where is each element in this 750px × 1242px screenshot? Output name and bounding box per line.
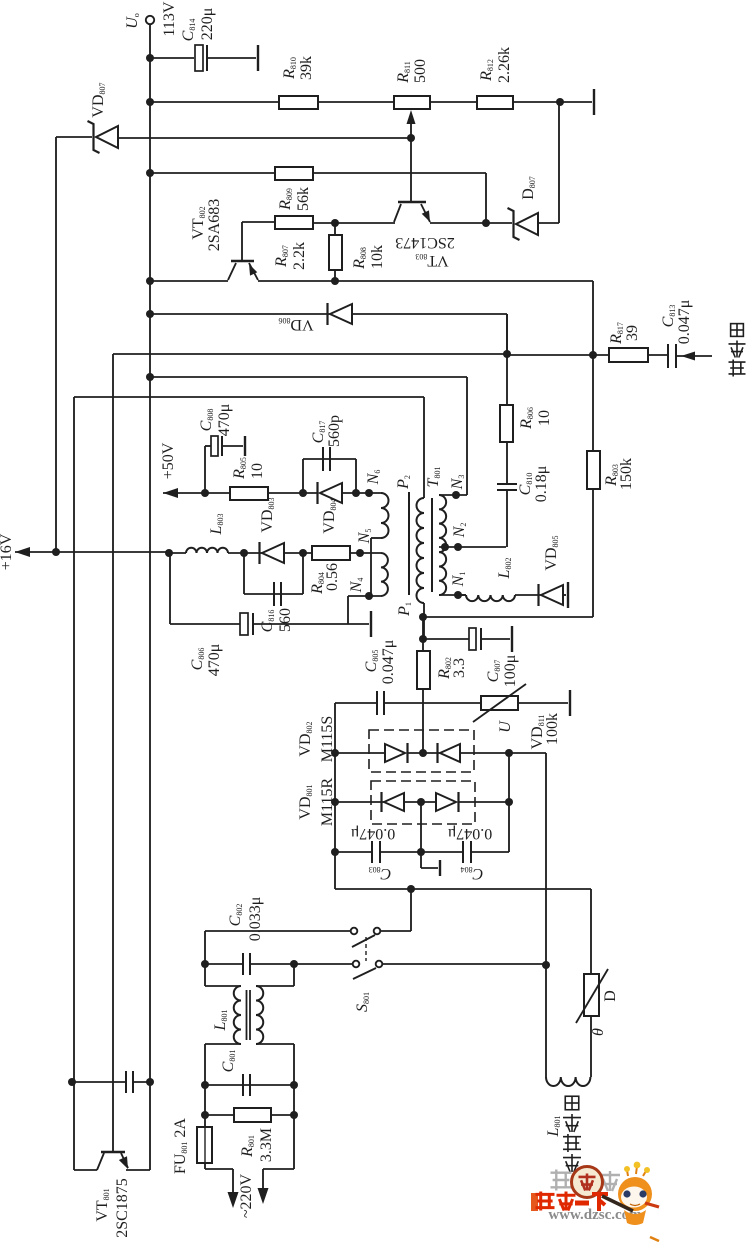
junction dot	[146, 277, 154, 285]
capacitor C803	[372, 841, 380, 863]
svg-text:470μ: 470μ	[216, 404, 233, 437]
wire	[222, 445, 243, 447]
wire R809 down to emitter row	[485, 173, 487, 223]
varistor VD811 (U)	[481, 696, 518, 710]
junction dot	[419, 749, 427, 757]
transformer T801 secondary winding right (N3-N2-N1)	[439, 495, 446, 595]
svg-text:2.26k: 2.26k	[496, 47, 513, 83]
ground bar	[257, 45, 259, 71]
wire R803 branch	[592, 355, 594, 451]
svg-text:0.18μ: 0.18μ	[533, 466, 550, 503]
junction dot	[201, 489, 209, 497]
wire	[518, 702, 568, 704]
wire	[459, 801, 509, 803]
svg-text:0.047μ: 0.047μ	[351, 826, 396, 843]
svg-text:2SC1875: 2SC1875	[114, 1178, 131, 1238]
wire	[506, 442, 508, 484]
junction dot	[503, 350, 511, 358]
junction dot	[417, 848, 425, 856]
wire	[334, 270, 336, 281]
wire VD806 row	[150, 313, 330, 315]
wire bridge right column	[508, 753, 510, 852]
label xiao-ci-xian-quan (degaussing coil)	[563, 1154, 581, 1172]
wire corner up to top rail	[558, 102, 560, 223]
wire	[352, 313, 507, 315]
zener diode VD807	[96, 126, 118, 148]
wire C817 right riser	[355, 459, 357, 493]
mains lead arrow 2	[262, 1169, 264, 1192]
wire	[513, 101, 560, 103]
wire primary top lead P2	[423, 397, 425, 498]
junction dot	[441, 543, 449, 551]
svg-text:2SC1473: 2SC1473	[395, 235, 455, 252]
transistor VT802 2SA683	[231, 260, 254, 263]
wire right column corner	[263, 1168, 294, 1170]
wire switch pole1 left	[205, 930, 350, 932]
transformer core bar right	[431, 498, 433, 592]
junction dot	[505, 749, 513, 757]
svg-text:39k: 39k	[298, 56, 315, 80]
svg-text:10: 10	[249, 463, 266, 479]
wire	[648, 354, 668, 356]
junction dot	[556, 98, 564, 106]
resistor R810	[279, 96, 318, 109]
wire bridge AC right drop	[545, 753, 547, 965]
svg-text:470μ: 470μ	[206, 644, 223, 677]
wire	[228, 552, 262, 554]
junction dot	[146, 54, 154, 62]
junction dot	[299, 489, 307, 497]
inductor L803	[186, 548, 228, 553]
wire switch riser	[410, 889, 412, 931]
wire C814 feed	[150, 57, 194, 59]
wire N3 feedback row	[150, 376, 467, 378]
junction dot	[542, 961, 550, 969]
wire	[458, 594, 466, 596]
capacitor C810	[497, 484, 517, 490]
wire C816 right riser	[302, 553, 304, 594]
wire horizontal drive row (to VT801 base)	[113, 353, 507, 355]
svg-text:2.2k: 2.2k	[291, 242, 308, 270]
svg-text:U: U	[497, 720, 514, 733]
dashed box damper VD801	[371, 781, 475, 824]
fuse FU801	[197, 1127, 212, 1163]
wire C803 row	[335, 851, 372, 853]
junction dot	[589, 351, 597, 359]
junction dot N2	[454, 543, 462, 551]
switch S801 pole2	[353, 961, 360, 968]
wire C810 to N2 corner	[506, 490, 508, 547]
junction dot N4	[365, 592, 373, 600]
wire VD807 row	[56, 136, 92, 138]
wire	[169, 552, 186, 554]
transistor VT801 2SC1875	[74, 1169, 97, 1171]
capacitor C804	[463, 841, 471, 863]
svg-text:560: 560	[277, 608, 294, 632]
wire P1 row	[423, 616, 593, 618]
capacitor C816	[274, 582, 281, 606]
wire P1 down	[422, 617, 424, 639]
wire	[284, 552, 312, 554]
arrowhead drive input	[681, 352, 695, 361]
wire N3 stub	[439, 494, 467, 496]
svg-text:0.047μ: 0.047μ	[676, 300, 693, 345]
wire C806 branch riser	[169, 553, 171, 624]
transformer T801 left winding upper (N6-N4)	[381, 493, 389, 538]
wire winding bypass vertical	[370, 538, 372, 596]
junction dot	[52, 548, 60, 556]
capacitor C813	[668, 344, 676, 368]
mains lead arrow 1	[232, 1169, 234, 1196]
wire C801 row	[205, 1084, 294, 1086]
transformer T801 left winding lower (N5-N4)	[381, 553, 388, 596]
junction dot	[331, 277, 339, 285]
ground bar	[567, 582, 569, 608]
wire N2 tap	[439, 546, 506, 548]
resistor R807	[275, 216, 313, 229]
wire degauss PTC drop	[590, 889, 592, 974]
watermark zhao-xin-pian outlined text	[551, 1170, 572, 1191]
junction dot	[417, 798, 425, 806]
choke core bars	[246, 990, 248, 1040]
junction dot	[299, 549, 307, 557]
wire C805/varistor row	[335, 702, 377, 704]
junction dot	[240, 549, 248, 557]
wire choke left bottom stub	[205, 1043, 241, 1045]
diode VD801-b	[436, 793, 456, 811]
resistor R804	[312, 546, 350, 560]
junction dot N5	[356, 549, 364, 557]
capacitor VT801 C-E damper cap	[72, 1081, 126, 1083]
diode VD805	[541, 585, 563, 605]
wire corner down to R817 row	[592, 281, 594, 355]
junction dot	[146, 1078, 154, 1086]
wire N4 ground jog	[347, 596, 349, 624]
wire to N5	[350, 552, 381, 554]
capacitor C808 electrolytic	[211, 436, 218, 456]
terminal U0 output	[146, 16, 154, 24]
inductor L802	[466, 595, 515, 601]
wire	[563, 594, 566, 596]
wire	[384, 702, 481, 704]
transistor VT803 2SC1473	[410, 139, 412, 201]
wire right column lower	[293, 1044, 295, 1169]
junction dot	[146, 98, 154, 106]
wire	[507, 354, 609, 356]
wire to VT803	[335, 222, 395, 224]
wire primary bottom lead P1	[423, 603, 425, 639]
resistor R805	[230, 487, 268, 500]
capacitor C806 electrolytic	[240, 613, 248, 635]
junction dot	[331, 219, 339, 227]
wire	[313, 172, 486, 174]
wire bridge center column	[420, 802, 422, 852]
capacitor C817	[323, 447, 330, 471]
wire to N6	[342, 492, 381, 494]
svg-text:3.3M: 3.3M	[258, 1128, 275, 1162]
wire mains row upper (bridge AC)	[335, 888, 591, 890]
wire D807 to corner	[538, 222, 559, 224]
thermistor D (PTC)	[584, 974, 599, 1016]
diode VD803	[262, 543, 284, 563]
wire left tall line from VD807	[55, 137, 57, 552]
junction dot	[352, 489, 360, 497]
junction dot	[146, 373, 154, 381]
wire PTC to coil	[590, 1016, 592, 1077]
junction dot	[331, 749, 339, 757]
wire R802 link	[422, 639, 424, 651]
resistor R802	[417, 651, 430, 689]
junction dot	[290, 960, 298, 968]
wire choke right riser	[293, 964, 295, 986]
capacitor C817 loop left riser	[302, 459, 304, 493]
ground bar	[593, 89, 595, 115]
svg-text:56k: 56k	[295, 187, 312, 211]
svg-text:10k: 10k	[369, 245, 386, 269]
junction dot	[146, 169, 154, 177]
resistor R817	[609, 348, 648, 362]
junction dot	[201, 1111, 209, 1119]
svg-text:39: 39	[624, 325, 641, 341]
resistor R801	[234, 1108, 271, 1122]
svg-text:0.033μ: 0.033μ	[247, 897, 264, 942]
wire	[481, 638, 510, 640]
wire +16V row	[15, 551, 169, 553]
junction dot	[331, 848, 339, 856]
wire R801 row	[205, 1114, 234, 1116]
svg-text:150k: 150k	[618, 458, 635, 490]
svg-text:~220V: ~220V	[238, 1173, 255, 1218]
svg-text:3.3: 3.3	[451, 658, 468, 678]
wire VT801 base line tall	[112, 354, 114, 1152]
svg-text:θ: θ	[590, 1028, 607, 1036]
transformer core bar left	[408, 492, 410, 595]
wire input left column top	[204, 931, 206, 986]
svg-text:220μ: 220μ	[199, 8, 216, 41]
svg-text:0.047μ: 0.047μ	[448, 826, 493, 843]
resistor R809	[275, 167, 313, 180]
ground bar	[370, 611, 372, 637]
junction dot N6	[365, 489, 373, 497]
watermark mascot	[602, 1162, 659, 1241]
diode VD806	[330, 304, 352, 324]
junction dot	[146, 310, 154, 318]
wire	[408, 752, 440, 754]
resistor R808	[329, 235, 342, 270]
wire R802 to bridge	[422, 689, 424, 753]
diode VD804	[320, 483, 342, 503]
wire left column lower	[204, 1044, 206, 1127]
wire VT801 collector tall line	[73, 397, 75, 1170]
svg-text:113V: 113V	[161, 1, 178, 36]
ground bar	[511, 626, 513, 652]
potentiometer wiper arrow R811	[410, 118, 412, 138]
wire row to right corner	[335, 280, 593, 282]
wire R803 down to P1 row	[592, 489, 594, 617]
wire N4 row	[348, 595, 381, 597]
wire	[404, 801, 436, 803]
resistor R812	[477, 96, 513, 109]
wire choke right top stub	[256, 985, 294, 987]
wire VT801 collector to primary P2 row	[74, 396, 424, 398]
junction dot	[419, 635, 427, 643]
transformer T801 primary winding P2-P1	[417, 498, 424, 603]
wire C816 bottom	[244, 593, 303, 595]
wire N1 stub	[439, 594, 466, 596]
capacitor C802	[243, 953, 250, 975]
wire emitter-collector row VT802/R808	[150, 280, 228, 282]
wire drive input	[676, 355, 712, 357]
capacitor C801	[243, 1074, 250, 1096]
resistor R811	[394, 96, 430, 109]
wire center ground jog	[420, 852, 422, 868]
zener diode D807	[516, 213, 538, 235]
junction dot	[290, 1081, 298, 1089]
wire choke left top stub	[205, 985, 241, 987]
wire	[313, 222, 335, 224]
junction dot	[290, 1111, 298, 1119]
capacitor C816 loop left riser	[243, 553, 245, 594]
wire bridge left column	[334, 753, 336, 889]
wire degauss left drop	[545, 965, 547, 1077]
svg-text:100k: 100k	[544, 713, 561, 745]
inductor L801 right winding	[256, 986, 263, 1044]
wire N3 riser	[466, 377, 468, 495]
wire VT802 base to R807	[242, 221, 275, 223]
wire emitter to D807	[430, 222, 512, 224]
wire	[253, 623, 369, 625]
wire switch pole2 right to degauss node	[382, 963, 546, 965]
wire switch pole1 right	[381, 930, 411, 932]
wire fuse to mains corner	[204, 1163, 206, 1169]
wire R810 row	[150, 101, 279, 103]
wire C807 row	[423, 638, 469, 640]
wire	[207, 57, 256, 59]
wire to ground bar	[560, 101, 592, 103]
watermark magnifier circle with xin	[572, 1167, 603, 1198]
wire	[318, 101, 394, 103]
switch gang dashed link	[365, 937, 367, 961]
resistor R806	[500, 405, 513, 442]
wire	[250, 963, 352, 965]
junction dot	[407, 885, 415, 893]
junction dot	[201, 1081, 209, 1089]
wire C808 branch riser	[204, 446, 206, 493]
capacitor C814	[195, 45, 203, 71]
diode VD802-b	[440, 744, 460, 762]
wire C805 left riser	[334, 703, 336, 753]
junction dot	[505, 798, 513, 806]
svg-text:500: 500	[412, 59, 429, 83]
svg-text:2SA683: 2SA683	[206, 199, 223, 251]
junction dot	[482, 219, 490, 227]
arrow +16V	[15, 547, 30, 557]
label input signal hang-mai-chong	[729, 360, 746, 377]
diode VD802-a	[385, 744, 405, 762]
ground bar	[244, 436, 246, 456]
wire	[460, 752, 546, 754]
watermark wei-ku-yi-xia red text	[531, 1193, 538, 1211]
capacitor C807 electrolytic	[469, 628, 476, 650]
junction dot	[165, 549, 173, 557]
svg-text:+50V: +50V	[160, 442, 177, 479]
wire bridge top row	[335, 752, 386, 754]
switch S801 pole1	[351, 928, 358, 935]
wire U0 to rail	[149, 24, 151, 58]
svg-text:D: D	[602, 990, 619, 1002]
wire C802 row	[205, 963, 243, 965]
dashed box damper VD802	[369, 730, 474, 772]
node B+ rail vertical (U0 line)	[149, 58, 151, 1082]
capacitor C805	[377, 691, 384, 715]
svg-text:0.56: 0.56	[324, 563, 341, 591]
degaussing coil	[546, 1077, 590, 1086]
arrow +50V	[163, 488, 178, 498]
wire +50V row	[163, 492, 317, 494]
ground bar	[569, 690, 571, 716]
wire C806 feed	[170, 623, 240, 625]
svg-text:560p: 560p	[326, 415, 343, 447]
wire choke right bottom stub	[256, 1043, 294, 1045]
wire bridge bottom row	[335, 801, 384, 803]
wire C817 top	[303, 458, 356, 460]
ground bar	[439, 860, 441, 876]
svg-text:100μ: 100μ	[502, 655, 519, 688]
svg-text:+16V: +16V	[0, 533, 15, 570]
svg-text:0.047μ: 0.047μ	[380, 640, 397, 685]
wire	[430, 101, 477, 103]
diode VD801-a	[384, 793, 404, 811]
junction dot N1	[454, 591, 462, 599]
wire	[380, 851, 463, 853]
svg-text:10: 10	[536, 410, 553, 426]
wire R809 row	[150, 172, 275, 174]
resistor R803	[587, 451, 600, 489]
wire	[471, 851, 509, 853]
junction dot N3	[452, 491, 460, 499]
junction dot	[331, 798, 339, 806]
wire R806/C810 branch top	[506, 314, 508, 355]
junction dot	[407, 134, 415, 142]
junction dot	[68, 1078, 76, 1086]
junction dot	[419, 613, 427, 621]
wire upper winding bottom stub	[371, 537, 381, 539]
inductor L801 left winding	[234, 986, 241, 1044]
wire C808 feed	[205, 445, 211, 447]
wire	[271, 1114, 294, 1116]
wire R808 vertical link	[334, 223, 336, 235]
wire VD807 to wiper node	[118, 137, 411, 139]
wire VD806 corner down	[506, 314, 508, 355]
junction dot	[201, 960, 209, 968]
